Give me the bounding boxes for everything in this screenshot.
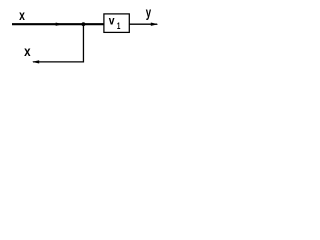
svg-text:v: v [109,15,116,28]
svg-text:x: x [19,7,25,23]
svg-text:x: x [24,43,30,59]
svg-text:1: 1 [117,21,121,31]
svg-text:y: y [146,6,152,21]
